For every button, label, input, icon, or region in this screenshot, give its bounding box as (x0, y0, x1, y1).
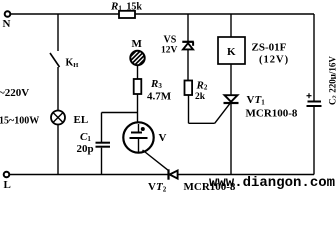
wire right rail (313, 14, 315, 101)
capacitor C1 (96, 142, 111, 144)
svg-text:www.diangon.com: www.diangon.com (209, 175, 335, 191)
resistor R1 (119, 11, 135, 18)
wire relay to VT1 (230, 64, 232, 95)
svg-text:N: N (3, 18, 11, 30)
svg-text:V: V (159, 132, 167, 144)
capacitor C2 (307, 93, 322, 106)
svg-text:L: L (4, 179, 11, 191)
svg-text:M: M (132, 38, 143, 50)
svg-text:VS: VS (164, 35, 177, 46)
wire switch branch upper (57, 14, 59, 51)
relay K box (218, 37, 245, 64)
microphone M (128, 48, 148, 68)
wire C1 vertical upper (101, 113, 103, 143)
svg-text:~220V: ~220V (0, 87, 29, 99)
svg-text:K: K (227, 46, 236, 58)
svg-text:4.7M: 4.7M (147, 91, 172, 103)
wire VS to R2 (187, 50, 189, 81)
zener diode VS (182, 42, 194, 50)
terminal N (5, 11, 11, 17)
thyristor VT1 (224, 95, 239, 103)
wire R3 to tube V (137, 94, 139, 123)
wire C1 tee horizontal (102, 112, 138, 114)
switch KH (50, 53, 60, 67)
wire bottom rail (10, 174, 315, 176)
wire VT2 gate diagonal (143, 150, 169, 171)
resistor R2 (185, 81, 193, 96)
svg-text:20p: 20p (77, 143, 94, 155)
svg-text:R115k: R115k (110, 1, 142, 13)
neon tube V (123, 122, 153, 152)
svg-text:ZS-01F: ZS-01F (252, 42, 287, 54)
wire relay branch upper (230, 14, 232, 37)
wire VT1 cathode down (230, 103, 232, 175)
svg-text:15~100W: 15~100W (0, 116, 39, 127)
svg-text:2k: 2k (195, 92, 206, 102)
wire top horizontal N rail (11, 13, 315, 15)
wire gate horizontal (189, 122, 215, 124)
thyristor VT2 (169, 169, 178, 179)
svg-text:(12V): (12V) (259, 55, 289, 66)
terminal L (4, 172, 10, 178)
resistor R3 (134, 79, 142, 94)
wire switch to lamp (57, 67, 59, 111)
svg-text:EL: EL (74, 114, 89, 126)
wire R2 down (188, 95, 190, 123)
wire right rail lower (313, 106, 315, 175)
wire lamp to bottom rail (57, 125, 59, 175)
wire VT1 gate diagonal (215, 98, 234, 123)
svg-text:MCR100-8: MCR100-8 (246, 108, 298, 120)
lamp EL (51, 111, 65, 125)
wire M to R3 (137, 65, 139, 79)
wire C1 to bottom rail (101, 148, 103, 175)
wire VS branch upper (187, 14, 189, 41)
svg-text:12V: 12V (161, 46, 178, 56)
